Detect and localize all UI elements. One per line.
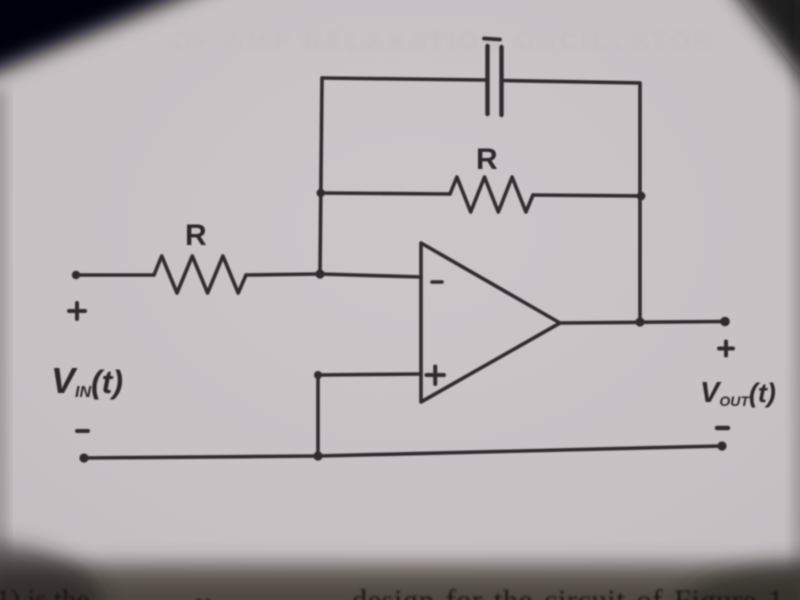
input terminal node bbox=[72, 271, 80, 279]
plus sign at Vout bbox=[719, 342, 733, 356]
node: feedback R tap on left vertical bbox=[317, 189, 325, 197]
node: feedback R to right vertical bbox=[637, 192, 646, 201]
svg-text:1) is the: 1) is the bbox=[0, 584, 89, 600]
node: bottom rail junction bbox=[313, 451, 322, 460]
resistor R1 (input R) bbox=[154, 256, 246, 293]
svg-text:OP AMP RELAXATION OSCILLATOR: OP AMP RELAXATION OSCILLATOR bbox=[172, 28, 716, 56]
wire: bottom rail bbox=[84, 446, 722, 458]
minus sign at Vin bbox=[77, 429, 88, 433]
caption text (partially cropped at bottom edge) bbox=[0, 584, 792, 600]
wire: resistor R1 to inverting node bbox=[246, 274, 320, 275]
wire: feedback branch right segment bbox=[533, 195, 641, 196]
op-amp inverting input dash bbox=[432, 280, 442, 284]
svg-text:design for the circuit of Figu: design for the circuit of Figure 1. bbox=[352, 584, 792, 600]
wire: right vertical of feedback loop bbox=[638, 83, 642, 322]
wire: capacitor branch left segment bbox=[322, 78, 485, 80]
op-amp non-inverting plus sign bbox=[427, 367, 445, 385]
wire: feedback branch left segment bbox=[321, 193, 450, 194]
node: inverting input junction bbox=[315, 269, 324, 278]
resistor R2 (feedback R) bbox=[450, 177, 533, 212]
wire: non-inverting branch vertical to bottom rail bbox=[316, 375, 320, 456]
bottom-right terminal node bbox=[717, 441, 726, 450]
capacitor C right plate bbox=[499, 47, 503, 115]
capacitor C left plate bbox=[485, 46, 489, 114]
ghost header text (bleed-through) bbox=[172, 28, 716, 56]
minus sign at Vout bbox=[717, 426, 728, 430]
wire: inverting node to op-amp inverting input bbox=[320, 274, 421, 277]
plus sign at Vin bbox=[69, 303, 85, 319]
svg-text:R: R bbox=[185, 219, 207, 252]
wire: capacitor branch right segment bbox=[504, 81, 641, 84]
node: output to right vertical junction bbox=[635, 317, 644, 326]
output terminal node bbox=[720, 317, 730, 327]
bottom-left terminal node bbox=[79, 453, 88, 462]
capacitor label dash above C bbox=[484, 39, 500, 40]
wire: output from op-amp tip bbox=[560, 322, 725, 324]
wire: non-inverting input horizontal bbox=[318, 374, 421, 375]
wire: input terminal to resistor R1 bbox=[76, 273, 154, 277]
svg-text:v: v bbox=[196, 588, 210, 600]
svg-text:R: R bbox=[476, 143, 498, 176]
wire: left vertical of feedback loop bbox=[320, 78, 322, 274]
op-amp U1 triangle bbox=[421, 243, 560, 402]
node: corner of non-inverting branch bbox=[314, 371, 322, 379]
